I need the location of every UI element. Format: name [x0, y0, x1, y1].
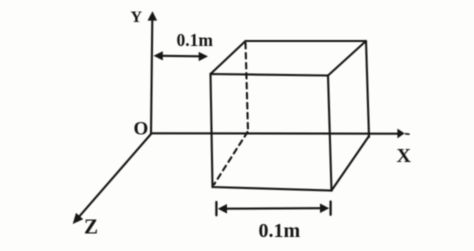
smudge after X arrowhead: [406, 133, 410, 135]
top dimension arrow 0.1m (double-headed): [160, 55, 200, 58]
cube hidden back-left vertical edge (dashed): [246, 43, 249, 131]
bottom dimension right tick: [329, 202, 331, 215]
svg-text:Y: Y: [131, 9, 143, 26]
svg-text:0.1m: 0.1m: [259, 220, 301, 242]
cube bottom-right slanted edge: [332, 136, 370, 191]
cube front face: [211, 74, 332, 191]
cube back-right vertical edge: [366, 41, 369, 137]
X axis arrowhead: [397, 129, 404, 139]
Z axis arrowhead: [73, 213, 84, 224]
svg-text:O: O: [134, 119, 149, 140]
bottom dimension arrow 0.1m (double-headed): [224, 207, 322, 210]
X axis: [151, 132, 398, 134]
bottom dimension left tick: [215, 202, 217, 215]
cube top back edge: [246, 40, 367, 42]
Y axis: [151, 19, 152, 134]
Y axis arrowhead: [148, 11, 158, 20]
svg-text:0.1m: 0.1m: [177, 30, 214, 50]
Z axis: [80, 134, 151, 216]
cube top-right slanted edge: [328, 41, 366, 76]
cube top-left slanted edge: [211, 41, 246, 74]
cube hidden bottom-left edge (dashed): [214, 132, 248, 185]
svg-text:X: X: [397, 145, 412, 167]
svg-text:Z: Z: [84, 215, 98, 239]
